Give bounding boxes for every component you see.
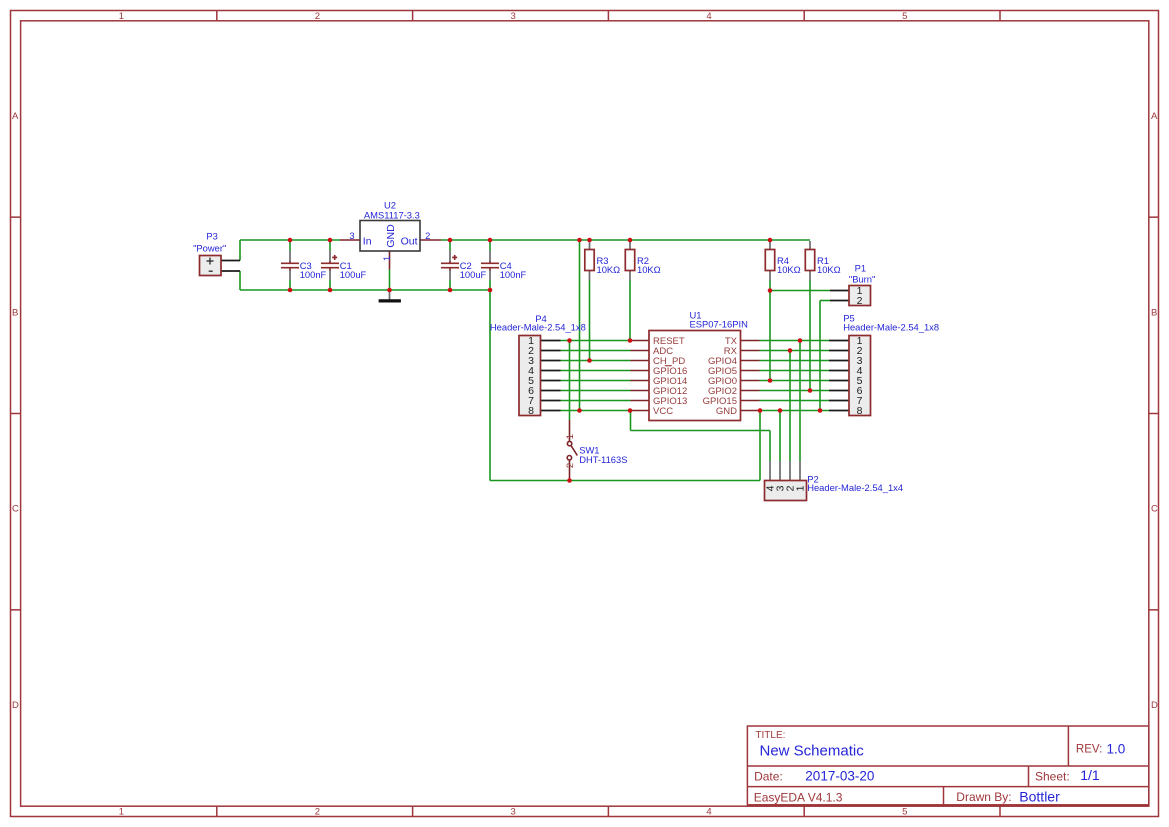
svg-text:10KΩ: 10KΩ — [637, 264, 661, 275]
svg-text:1.0: 1.0 — [1107, 741, 1126, 756]
svg-text:EasyEDA V4.1.3: EasyEDA V4.1.3 — [754, 791, 843, 805]
svg-text:TITLE:: TITLE: — [755, 730, 785, 741]
svg-text:Sheet:: Sheet: — [1035, 770, 1070, 784]
svg-text:10KΩ: 10KΩ — [777, 264, 801, 275]
svg-text:3: 3 — [511, 11, 516, 22]
svg-text:2: 2 — [315, 807, 320, 818]
svg-text:A: A — [12, 111, 19, 122]
svg-text:Header-Male-2.54_1x4: Header-Male-2.54_1x4 — [807, 482, 903, 493]
svg-text:1: 1 — [565, 434, 576, 439]
svg-text:100uF: 100uF — [460, 269, 487, 280]
svg-text:5: 5 — [902, 11, 907, 22]
svg-text:D: D — [12, 700, 19, 711]
svg-text:4: 4 — [706, 11, 711, 22]
svg-text:2: 2 — [857, 295, 863, 307]
svg-text:3: 3 — [511, 807, 516, 818]
svg-text:GND: GND — [385, 224, 397, 248]
svg-text:DHT-1163S: DHT-1163S — [579, 454, 627, 465]
svg-text:2017-03-20: 2017-03-20 — [805, 769, 874, 784]
svg-text:New Schematic: New Schematic — [760, 743, 865, 760]
svg-text:3: 3 — [349, 230, 354, 241]
svg-text:1: 1 — [119, 11, 124, 22]
svg-text:"Burn": "Burn" — [849, 273, 875, 284]
svg-text:2: 2 — [425, 230, 430, 241]
svg-text:GND: GND — [716, 406, 737, 417]
svg-text:B: B — [12, 307, 18, 318]
svg-text:8: 8 — [857, 405, 863, 417]
svg-text:Header-Male-2.54_1x8: Header-Male-2.54_1x8 — [843, 321, 939, 332]
svg-text:ESP07-16PIN: ESP07-16PIN — [690, 318, 748, 329]
svg-text:REV:: REV: — [1076, 743, 1102, 755]
svg-text:C: C — [1151, 504, 1158, 515]
svg-text:100nF: 100nF — [300, 269, 327, 280]
svg-text:"Power": "Power" — [193, 242, 226, 253]
svg-text:100nF: 100nF — [500, 269, 527, 280]
svg-text:D: D — [1151, 700, 1158, 711]
svg-text:100uF: 100uF — [340, 269, 367, 280]
svg-text:5: 5 — [902, 807, 907, 818]
svg-text:1: 1 — [381, 256, 392, 261]
svg-text:AMS1117-3.3: AMS1117-3.3 — [364, 210, 420, 221]
svg-text:C: C — [12, 504, 19, 515]
svg-text:4: 4 — [706, 807, 711, 818]
svg-text:Drawn By:: Drawn By: — [956, 790, 1011, 804]
svg-text:P3: P3 — [206, 231, 217, 242]
svg-text:P1: P1 — [855, 263, 866, 274]
svg-text:Out: Out — [401, 235, 418, 247]
svg-text:10KΩ: 10KΩ — [817, 264, 841, 275]
svg-text:2: 2 — [315, 11, 320, 22]
svg-text:10KΩ: 10KΩ — [597, 264, 621, 275]
svg-text:1: 1 — [119, 807, 124, 818]
svg-text:2: 2 — [565, 463, 576, 468]
svg-text:Header-Male-2.54_1x8: Header-Male-2.54_1x8 — [490, 321, 586, 332]
svg-text:A: A — [1151, 111, 1158, 122]
svg-text:1: 1 — [795, 485, 807, 491]
svg-text:Date:: Date: — [754, 770, 783, 784]
svg-text:VCC: VCC — [653, 406, 673, 417]
svg-text:1/1: 1/1 — [1080, 767, 1100, 783]
svg-text:Bottler: Bottler — [1019, 788, 1060, 804]
svg-text:8: 8 — [528, 405, 534, 417]
svg-text:In: In — [363, 235, 372, 247]
svg-text:B: B — [1151, 307, 1157, 318]
